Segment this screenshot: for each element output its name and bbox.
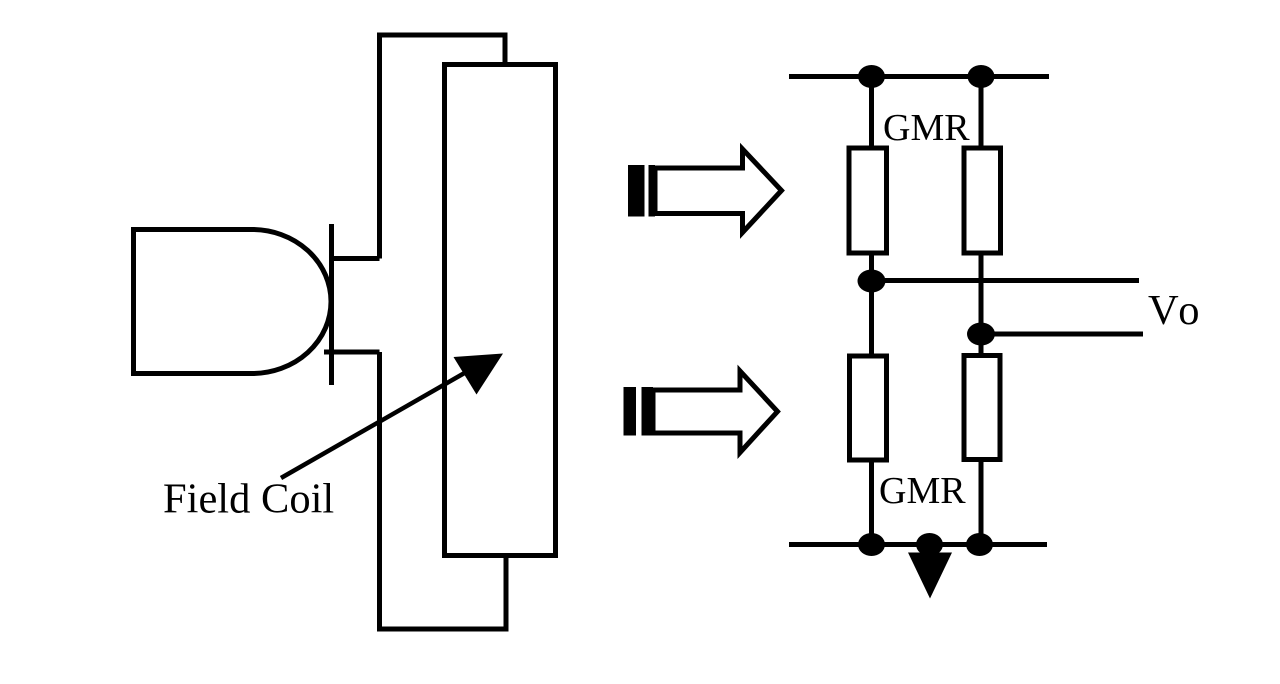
field arrow upper tail bar 2 bbox=[649, 165, 656, 217]
field coil loop upper-left segment bbox=[380, 35, 506, 259]
resistor R2 (upper-right GMR) bbox=[964, 148, 1001, 253]
wire top stub to field coil bbox=[332, 256, 380, 261]
wire top-left branch bbox=[869, 77, 874, 149]
resistor R4 (lower-right GMR) bbox=[964, 356, 1000, 460]
node dot bottom-right bbox=[966, 533, 993, 556]
node B dot (right mid) bbox=[967, 323, 995, 346]
svg-text:GMR: GMR bbox=[883, 107, 970, 149]
wire lower Vo lead bbox=[981, 332, 1143, 337]
field arrow lower (block arrow) bbox=[653, 371, 778, 453]
svg-text:Vo: Vo bbox=[1148, 287, 1204, 334]
node dot bottom-middle bbox=[916, 533, 943, 556]
wire top-right branch bbox=[979, 77, 984, 149]
wire node B to R4 bbox=[979, 334, 984, 356]
coupling bar bbox=[329, 224, 334, 385]
magnet core (D-shaped pole piece) bbox=[134, 230, 332, 374]
node dot top-right bbox=[968, 65, 995, 88]
top supply rail bbox=[789, 74, 1049, 79]
Field Coil pointer arrowhead bbox=[454, 354, 504, 395]
resistor R3 (lower-left GMR) bbox=[850, 356, 887, 460]
svg-text:Field Coil: Field Coil bbox=[163, 476, 334, 523]
field coil loop lower-left segment bbox=[380, 352, 507, 629]
wire R4 bottom to ground rail bbox=[979, 460, 984, 545]
field arrow lower tail bar 1 bbox=[624, 387, 637, 436]
bottom ground rail bbox=[789, 542, 1047, 547]
node dot top-left bbox=[858, 65, 885, 88]
resistor R1 (upper-left GMR) bbox=[849, 148, 887, 253]
GMR chip substrate bbox=[445, 65, 556, 556]
wire node A to R3 bbox=[869, 281, 874, 356]
node A dot (left mid) bbox=[858, 270, 886, 293]
wire R3 bottom to ground rail bbox=[869, 460, 874, 545]
field arrow upper tail bar 1 bbox=[628, 165, 645, 217]
wire bottom stub to field coil bbox=[324, 350, 380, 355]
Field Coil leader line bbox=[281, 371, 468, 478]
field arrow lower tail bar 2 bbox=[642, 387, 654, 436]
wire R2 bottom to node B bbox=[979, 253, 984, 334]
svg-text:GMR: GMR bbox=[879, 470, 966, 512]
wire upper Vo lead bbox=[872, 278, 1140, 283]
wire R1 bottom to node A bbox=[869, 253, 874, 281]
ground arrow bbox=[908, 553, 952, 599]
node dot bottom-left bbox=[858, 533, 885, 556]
field arrow upper (block arrow) bbox=[655, 149, 782, 233]
